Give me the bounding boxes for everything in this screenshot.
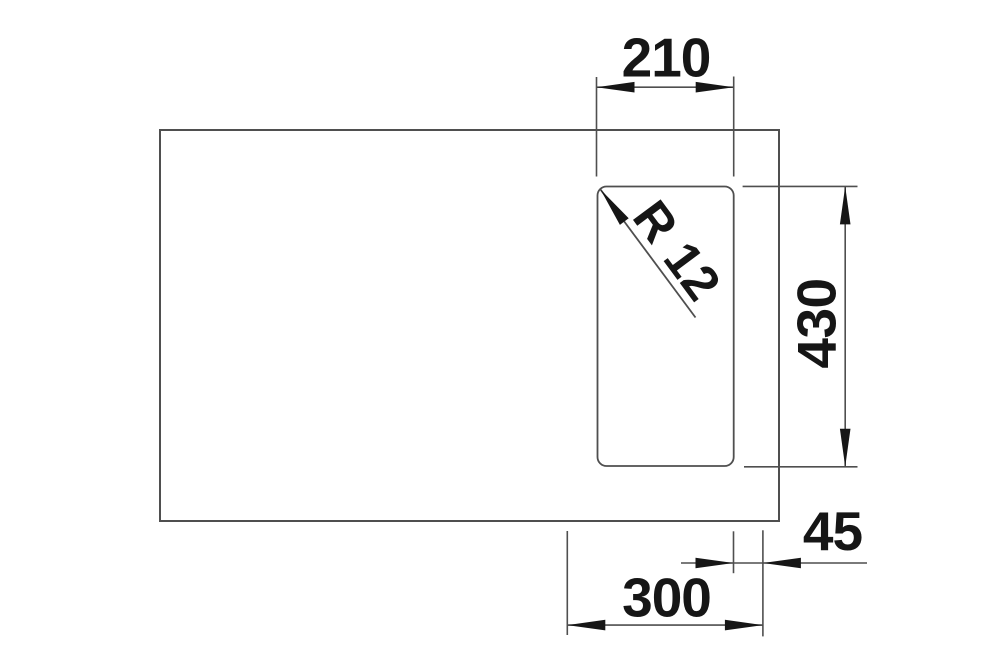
dimension 430: bottom arrowhead (840, 429, 851, 467)
dimension 210: right arrowhead (696, 82, 734, 93)
svg-text:210: 210 (622, 27, 711, 89)
dimension 300: extension line left (566, 531, 568, 635)
dimension 300: dimension line (567, 624, 763, 626)
dimension 300: right arrowhead (725, 620, 763, 631)
svg-text:R 12: R 12 (622, 190, 732, 311)
dimension 430: extension line bottom (744, 466, 858, 468)
dimension 45: left arrowhead (outside, points right) (696, 558, 734, 569)
dimension 210: dimension line (597, 86, 734, 88)
R12 leader arrowhead (601, 190, 629, 225)
svg-text:300: 300 (622, 567, 711, 629)
dimension 45: dimension line (681, 562, 867, 564)
shared extension line right (762, 530, 764, 636)
dimension 300: left arrowhead (567, 620, 605, 631)
countertop outline (160, 130, 779, 521)
svg-text:430: 430 (786, 278, 848, 368)
dimension 45: right arrowhead (outside, points left) (763, 558, 801, 569)
R12 leader line (601, 190, 696, 318)
dimension 430: top arrowhead (840, 186, 851, 224)
dimension 210: extension line left (596, 77, 598, 177)
svg-text:45: 45 (803, 500, 863, 562)
dimension 210: left arrowhead (597, 82, 635, 93)
dimension 210: extension line right (733, 77, 735, 177)
dimension 430: dimension line (844, 186, 846, 466)
sink bowl cutout (rounded rect) (598, 187, 734, 467)
dimension 430: extension line top (743, 185, 858, 187)
dimension 45: extension line left (bowl edge) (733, 531, 735, 573)
